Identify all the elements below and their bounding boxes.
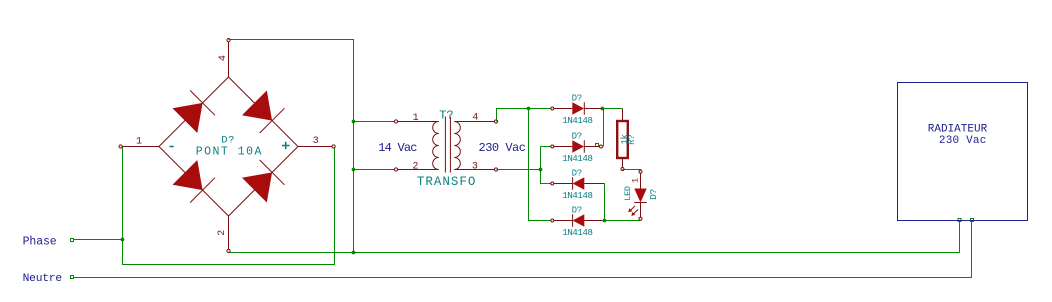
svg-text:D?: D? <box>572 94 582 104</box>
svg-text:1: 1 <box>631 178 641 183</box>
svg-text:3: 3 <box>313 136 319 147</box>
svg-text:D?: D? <box>572 206 582 216</box>
svg-text:4: 4 <box>472 113 478 124</box>
svg-text:Neutre: Neutre <box>23 273 63 285</box>
svg-text:1: 1 <box>136 137 142 148</box>
svg-text:D?: D? <box>648 189 659 200</box>
svg-text:Phase: Phase <box>23 235 57 248</box>
svg-text:T?: T? <box>439 108 453 122</box>
svg-text:230 Vac: 230 Vac <box>939 135 987 147</box>
svg-text:D?: D? <box>572 132 582 142</box>
svg-text:RADIATEUR: RADIATEUR <box>928 123 988 135</box>
svg-text:1: 1 <box>413 113 419 124</box>
svg-text:TRANSFO: TRANSFO <box>417 175 477 189</box>
svg-text:1N4148: 1N4148 <box>562 227 592 238</box>
svg-text:4: 4 <box>218 55 229 61</box>
svg-text:PONT 10A: PONT 10A <box>196 145 263 158</box>
svg-text:14 Vac: 14 Vac <box>378 141 417 155</box>
svg-text:1N4148: 1N4148 <box>562 153 592 164</box>
svg-text:2: 2 <box>412 161 418 172</box>
svg-text:3: 3 <box>472 162 478 173</box>
svg-text:1N4148: 1N4148 <box>562 115 592 126</box>
svg-text:D?: D? <box>572 169 582 179</box>
svg-text:2: 2 <box>217 230 228 236</box>
svg-text:R?: R? <box>627 135 637 145</box>
svg-text:LED: LED <box>623 186 633 201</box>
svg-text:1N4148: 1N4148 <box>562 190 592 201</box>
svg-text:230 Vac: 230 Vac <box>479 141 526 155</box>
